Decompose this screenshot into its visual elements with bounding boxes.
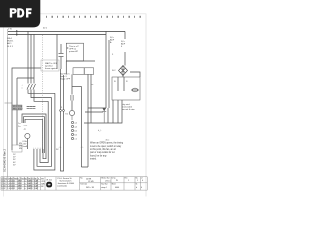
svg-text:OFF lat: OFF lat bbox=[69, 47, 76, 50]
svg-text:WAIT ltr OFF: WAIT ltr OFF bbox=[45, 62, 58, 65]
svg-text:W: W bbox=[116, 180, 118, 182]
svg-text:city wird: city wird bbox=[122, 103, 130, 106]
svg-text:securti & otnn: securti & otnn bbox=[122, 108, 136, 111]
svg-text:nb x: nb x bbox=[106, 139, 110, 141]
svg-text:1: 1 bbox=[137, 180, 138, 182]
svg-text:When an OPEN opens, the timing: When an OPEN opens, the timing bbox=[90, 142, 124, 145]
svg-text:(continued): (continued) bbox=[58, 185, 68, 188]
svg-text:tested.: tested. bbox=[90, 158, 97, 161]
svg-text:Dr by: Dr by bbox=[112, 178, 116, 180]
svg-text:34/5 + 98: 34/5 + 98 bbox=[86, 187, 94, 189]
svg-text:+ + + + + +: + + + + + + bbox=[33, 148, 44, 150]
svg-text:ADF: ADF bbox=[110, 39, 115, 42]
svg-text:W. Ind.: W. Ind. bbox=[46, 179, 52, 181]
svg-text:1: 1 bbox=[128, 180, 129, 182]
svg-text:to this point, this fan, an ai: to this point, this fan, an air bbox=[90, 148, 116, 151]
svg-text:b: b bbox=[136, 187, 137, 189]
svg-text:N.C: N.C bbox=[112, 70, 116, 72]
svg-text:x: x bbox=[38, 178, 39, 180]
svg-text:02: 02 bbox=[3, 188, 5, 190]
svg-text:4: 4 bbox=[141, 187, 142, 189]
svg-text:SCH-0042-B Rev 2: SCH-0042-B Rev 2 bbox=[3, 148, 7, 172]
svg-text:JWM: JWM bbox=[18, 188, 23, 190]
svg-text:is set to be open; switch or r: is set to be open; switch or relay bbox=[90, 145, 122, 148]
svg-text:tgnshtat: tgnshtat bbox=[45, 65, 53, 68]
svg-text:1.4: 1.4 bbox=[7, 188, 10, 190]
svg-text:4: 4 bbox=[142, 180, 143, 182]
svg-text:those agains: those agains bbox=[45, 67, 57, 70]
svg-text:0: 0 bbox=[1, 188, 2, 190]
svg-text:04.01: 04.01 bbox=[11, 188, 16, 190]
svg-text:PE L N 1 2: PE L N 1 2 bbox=[13, 108, 23, 110]
svg-text:primar AT: primar AT bbox=[69, 50, 79, 53]
svg-text:-||-: -||- bbox=[24, 129, 27, 131]
svg-text:SL F 1: SL F 1 bbox=[7, 46, 14, 48]
svg-text:ADF: ADF bbox=[121, 43, 126, 46]
svg-text:Stage OFF: Stage OFF bbox=[60, 78, 71, 81]
svg-text:BARD: BARD bbox=[28, 187, 34, 190]
svg-text:12.345: 12.345 bbox=[88, 181, 94, 183]
svg-text:DIA 1: DIA 1 bbox=[7, 37, 13, 40]
svg-text:K1A: K1A bbox=[23, 140, 28, 143]
svg-text:tramanded: tramanded bbox=[122, 105, 133, 108]
svg-text:found, be for any.: found, be for any. bbox=[90, 154, 107, 157]
svg-text:h_/.: h_/. bbox=[98, 130, 102, 132]
svg-text:part or map outlets for rel.: part or map outlets for rel. bbox=[90, 151, 115, 154]
svg-text:x: x bbox=[22, 88, 23, 90]
svg-text:5mA: 5mA bbox=[23, 145, 28, 148]
svg-text:Sc: Sc bbox=[136, 184, 138, 186]
svg-text:1 W: 1 W bbox=[8, 29, 12, 31]
svg-text:4004: 4004 bbox=[115, 187, 119, 189]
